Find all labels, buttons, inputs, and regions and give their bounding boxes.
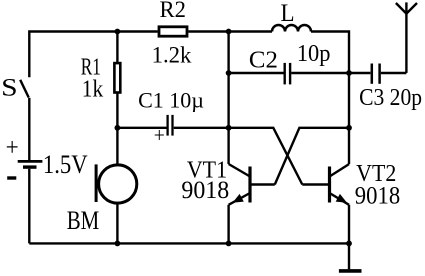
svg-text:10p: 10p	[297, 41, 331, 67]
svg-text:+: +	[6, 133, 19, 162]
wire C2 row right	[291, 72, 349, 74]
node junction on C2 row right	[346, 70, 352, 76]
node junction on C2 row left	[226, 70, 232, 76]
transistor VT1 (9018)	[229, 164, 275, 205]
wire cross-coupling node C to VT2 base (diagonal)	[229, 128, 303, 185]
wire R1 top lead from top rail	[116, 32, 118, 64]
node junction D (VT2 collector / cross-coupling)	[346, 125, 352, 131]
wire C1 right plate to node C (VT1 collector net)	[174, 127, 229, 129]
wire node B to C1 left plate	[117, 127, 166, 129]
wire node B down to microphone BM	[116, 128, 118, 165]
wire bottom rail	[29, 242, 349, 244]
microphone BM	[96, 164, 137, 203]
svg-text:BM: BM	[67, 206, 100, 235]
wire C3 row left	[349, 72, 370, 74]
battery GB 1.5V	[18, 161, 43, 167]
svg-text:1.2k: 1.2k	[152, 43, 192, 69]
node junction A (top rail to VT1 collector branch)	[226, 29, 232, 35]
wire microphone BM to bottom rail	[116, 204, 118, 244]
battery minus label	[7, 176, 16, 179]
capacitor C3	[372, 64, 380, 84]
svg-text:C3 20p: C3 20p	[359, 85, 422, 111]
resistor R2	[159, 27, 187, 36]
node junction VT1 emitter on bottom rail	[226, 241, 232, 247]
wire VT1 emitter to bottom rail	[227, 205, 229, 244]
switch S	[20, 80, 29, 98]
node junction B (R1 / C1 / BM)	[115, 125, 121, 131]
wire vertical VT1 collector branch (node A down to VT1)	[227, 32, 229, 165]
wire battery negative to bottom rail	[28, 169, 30, 244]
svg-text:1.5V: 1.5V	[43, 149, 88, 179]
node junction R1 top on top rail	[115, 29, 121, 35]
svg-text:S: S	[1, 75, 18, 102]
wire VT2 emitter to bottom rail	[348, 205, 350, 244]
svg-text:1k: 1k	[82, 77, 103, 103]
capacitor C2	[285, 63, 290, 85]
ground symbol	[339, 243, 362, 271]
wire R2 to L (top rail middle)	[188, 30, 272, 32]
wire switch to battery positive	[28, 98, 30, 160]
node junction BM bottom on bottom rail	[115, 241, 121, 247]
wire C2 row left	[229, 72, 284, 74]
inductor L	[272, 25, 311, 31]
wire R1 bottom lead to node B	[116, 93, 118, 128]
node junction C (VT1 collector / C1 / cross-coupling)	[226, 125, 232, 131]
transistor VT2 (9018)	[302, 164, 349, 205]
wire cross-coupling node D to VT1 base (diagonal)	[275, 128, 349, 185]
capacitor C1 (electrolytic 10u)	[168, 115, 173, 136]
svg-text:C2: C2	[249, 47, 278, 74]
wire top rail from switch/battery corner to R2	[29, 32, 157, 78]
wire C3 to antenna mast	[381, 72, 407, 74]
svg-text:+: +	[154, 123, 165, 147]
svg-text:R2: R2	[160, 0, 186, 23]
resistor R1	[114, 63, 120, 92]
svg-text:C1 10µ: C1 10µ	[138, 87, 204, 112]
node junction VT2 emitter / ground on bottom rail	[346, 241, 352, 247]
wire L to VT2 collector branch (top rail right corner)	[311, 32, 349, 165]
antenna W	[396, 2, 417, 73]
svg-text:L: L	[281, 0, 295, 27]
svg-text:9018: 9018	[355, 183, 400, 210]
svg-text:9018: 9018	[181, 177, 229, 204]
